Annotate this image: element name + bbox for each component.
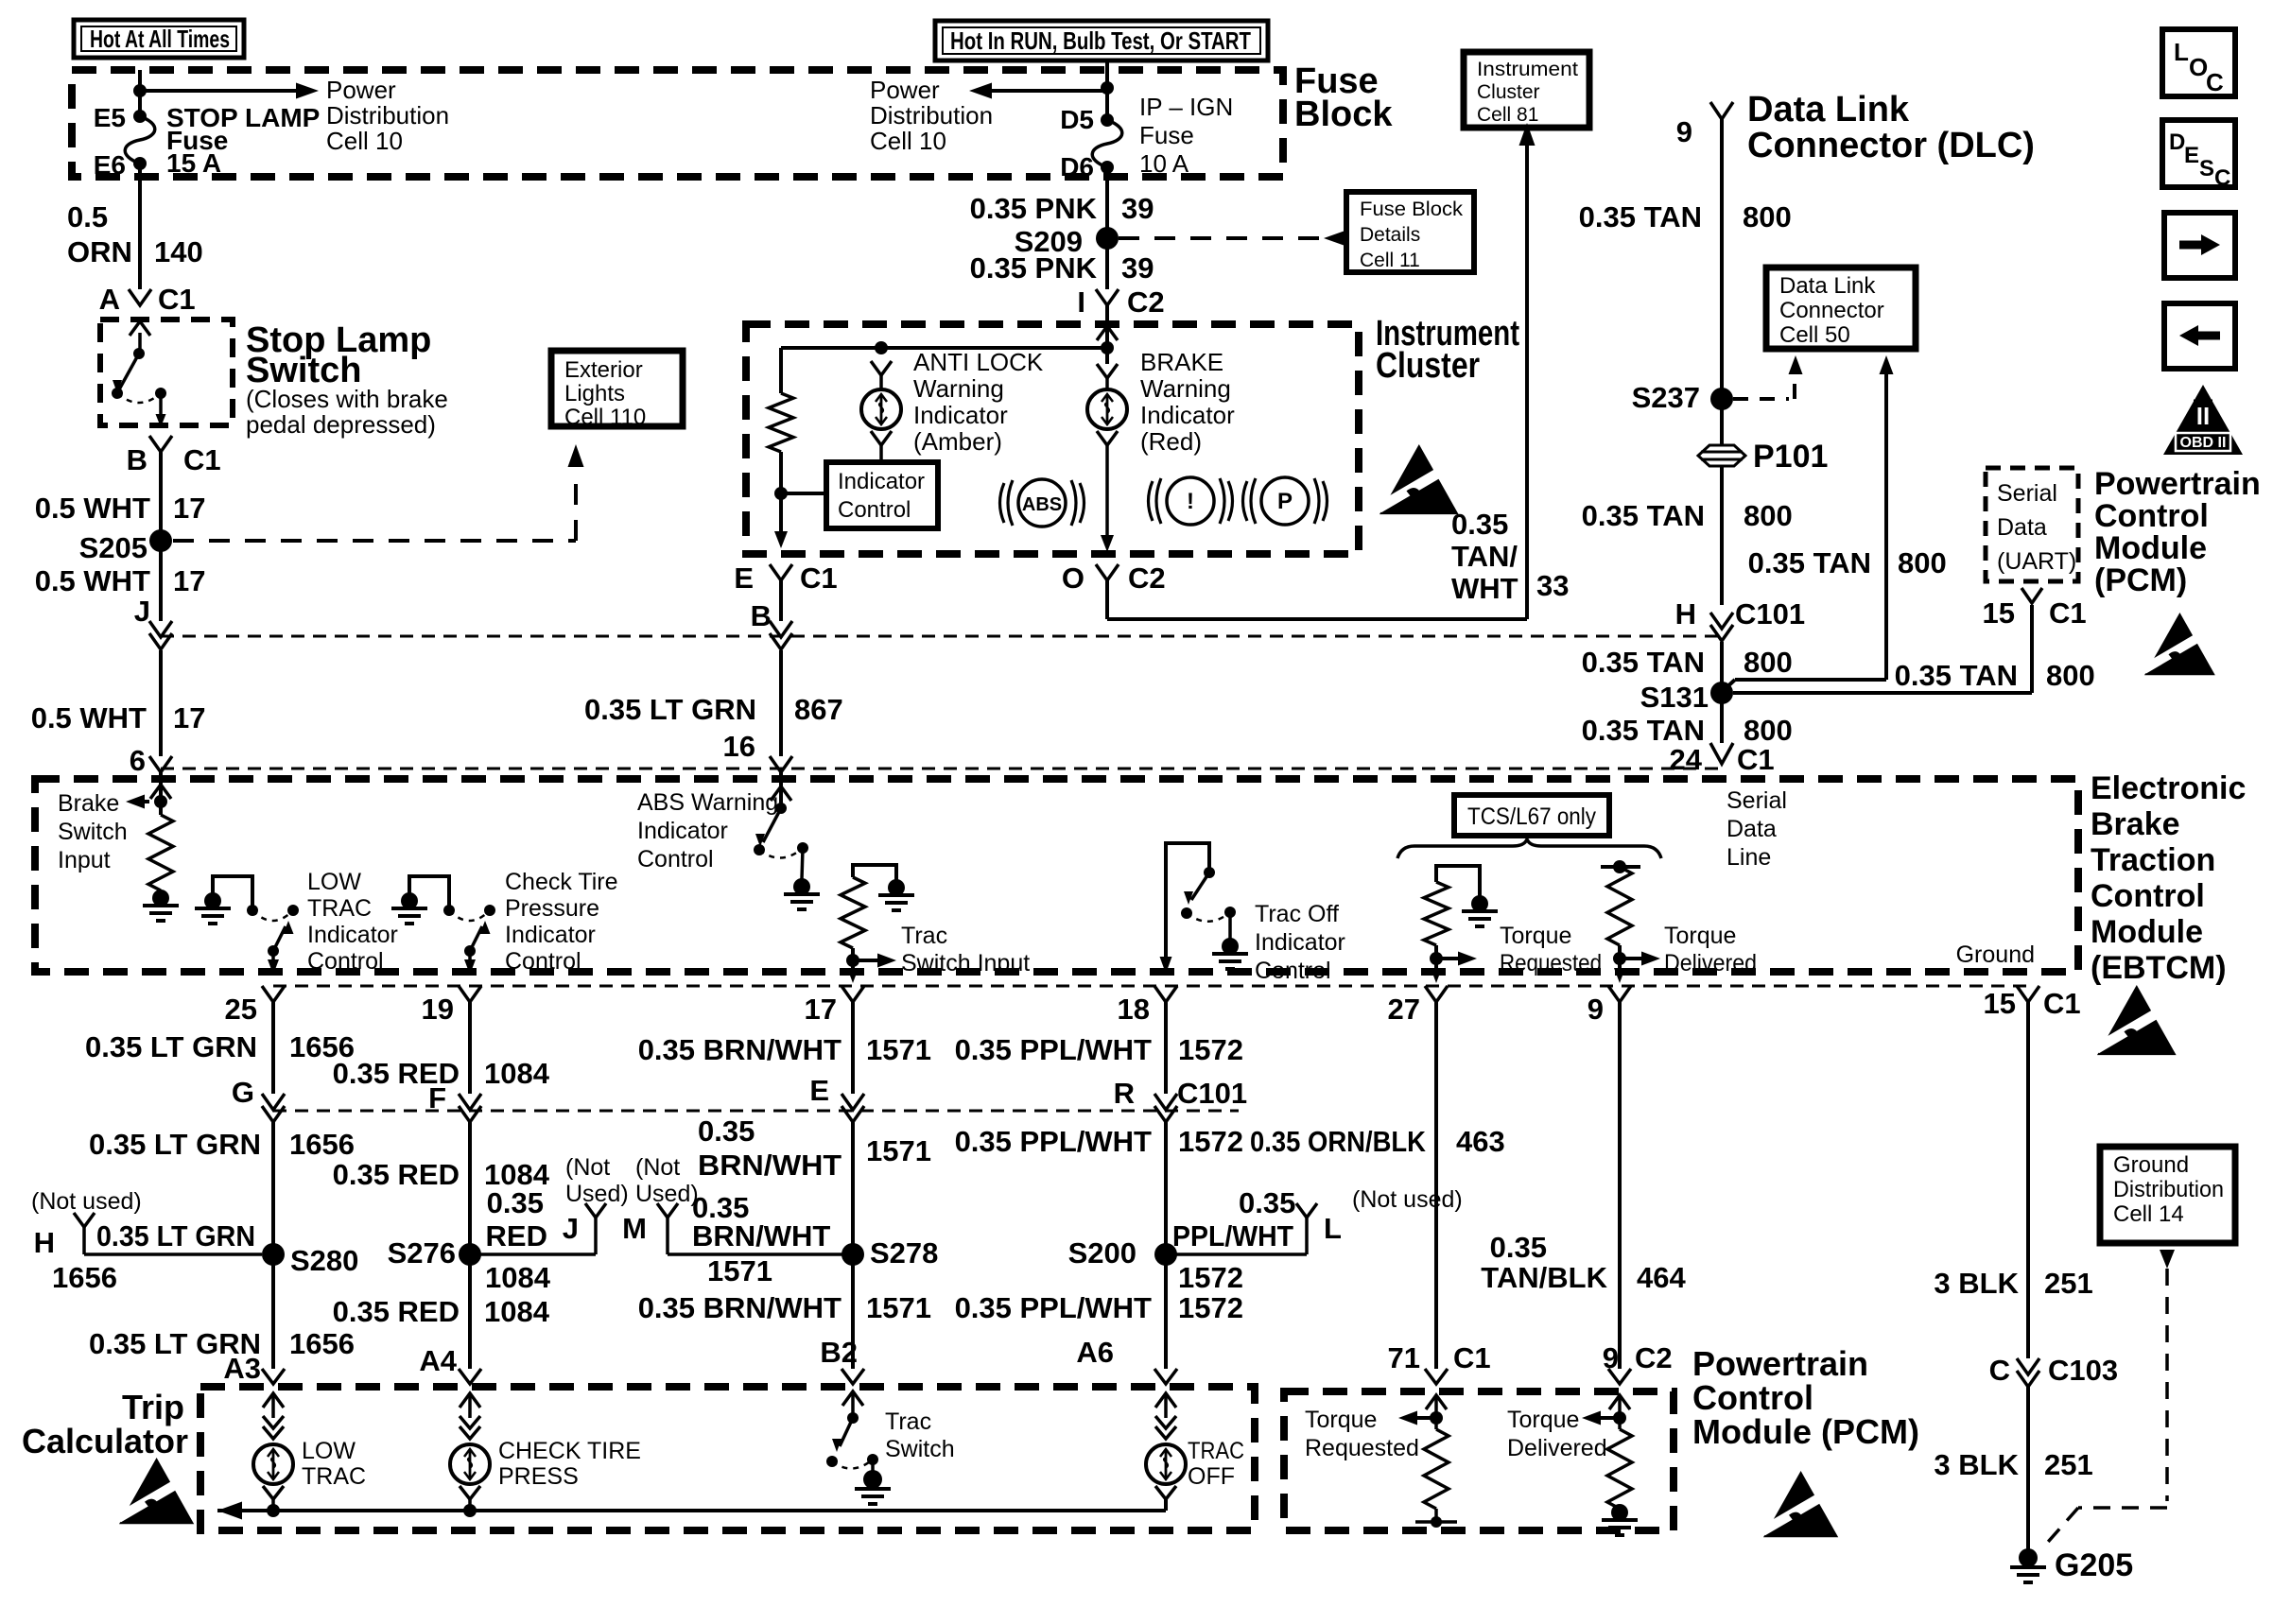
- svg-text:C2: C2: [1128, 561, 1166, 595]
- svg-text:0.35: 0.35: [1451, 508, 1508, 541]
- svg-text:0.35 LT GRN: 0.35 LT GRN: [89, 1128, 261, 1161]
- svg-text:PRESS: PRESS: [498, 1463, 579, 1490]
- svg-text:0.35: 0.35: [1239, 1186, 1295, 1219]
- svg-text:Hot At All Times: Hot At All Times: [90, 25, 230, 53]
- svg-text:OBD II: OBD II: [2180, 435, 2227, 451]
- svg-text:F: F: [428, 1081, 446, 1114]
- svg-text:1572: 1572: [1178, 1033, 1243, 1066]
- svg-text:Control: Control: [1692, 1378, 1813, 1417]
- svg-text:0.5: 0.5: [67, 200, 108, 233]
- svg-text:0.35 PPL/WHT: 0.35 PPL/WHT: [955, 1125, 1152, 1158]
- svg-text:OFF: OFF: [1188, 1463, 1235, 1490]
- svg-text:A6: A6: [1076, 1336, 1114, 1369]
- svg-text:Lights: Lights: [564, 381, 625, 406]
- svg-text:Used): Used): [565, 1181, 629, 1207]
- svg-text:S205: S205: [79, 531, 147, 564]
- svg-text:Serial: Serial: [1997, 480, 2057, 507]
- svg-text:TRAC: TRAC: [302, 1463, 366, 1490]
- svg-text:Torque: Torque: [1305, 1407, 1377, 1433]
- svg-text:TRAC: TRAC: [307, 895, 372, 922]
- svg-text:Switch Input: Switch Input: [901, 950, 1030, 976]
- svg-text:A3: A3: [223, 1352, 261, 1385]
- svg-text:9: 9: [1588, 993, 1604, 1026]
- svg-text:Module: Module: [2094, 530, 2207, 566]
- svg-text:0.35 LT GRN: 0.35 LT GRN: [85, 1030, 257, 1063]
- svg-text:Torque: Torque: [1507, 1407, 1579, 1433]
- svg-text:Control: Control: [505, 948, 581, 975]
- svg-text:B: B: [127, 443, 147, 476]
- svg-text:ABS Warning: ABS Warning: [637, 789, 778, 816]
- svg-text:LOW: LOW: [307, 869, 361, 895]
- svg-text:(Not: (Not: [635, 1154, 680, 1181]
- svg-text:G: G: [232, 1076, 254, 1109]
- svg-text:Control: Control: [2091, 878, 2205, 914]
- svg-text:(Not: (Not: [565, 1154, 610, 1181]
- svg-text:M: M: [622, 1212, 647, 1245]
- svg-text:39: 39: [1121, 251, 1154, 285]
- svg-text:Trac: Trac: [885, 1408, 931, 1435]
- svg-text:Indicator: Indicator: [838, 469, 925, 494]
- svg-text:16: 16: [723, 730, 755, 763]
- svg-text:800: 800: [1898, 546, 1947, 579]
- svg-text:15: 15: [1983, 596, 2015, 630]
- svg-text:6: 6: [130, 744, 146, 777]
- svg-text:800: 800: [1744, 714, 1793, 747]
- svg-text:Power: Power: [326, 76, 396, 104]
- svg-text:17: 17: [805, 993, 837, 1026]
- svg-text:(Red): (Red): [1140, 427, 1202, 456]
- svg-text:0.35 TAN: 0.35 TAN: [1582, 714, 1705, 747]
- svg-text:C101: C101: [1735, 597, 1805, 631]
- svg-text:Trac: Trac: [901, 923, 947, 949]
- svg-text:0.35 PPL/WHT: 0.35 PPL/WHT: [955, 1033, 1152, 1066]
- svg-text:D: D: [2169, 130, 2185, 155]
- svg-text:Hot In RUN, Bulb Test, Or STAR: Hot In RUN, Bulb Test, Or START: [950, 26, 1251, 55]
- svg-text:D6: D6: [1060, 152, 1094, 181]
- svg-text:WHT: WHT: [1451, 572, 1518, 605]
- svg-text:Switch: Switch: [58, 819, 128, 845]
- svg-text:0.5 WHT: 0.5 WHT: [35, 564, 150, 597]
- svg-text:S: S: [2199, 156, 2214, 181]
- svg-text:S276: S276: [388, 1236, 456, 1270]
- svg-text:S280: S280: [290, 1244, 358, 1277]
- svg-text:(Closes with brake: (Closes with brake: [246, 385, 448, 413]
- svg-text:I: I: [1077, 285, 1085, 319]
- svg-text:C1: C1: [2049, 596, 2087, 630]
- svg-text:TCS/L67 only: TCS/L67 only: [1467, 803, 1596, 830]
- svg-text:867: 867: [794, 693, 843, 726]
- svg-text:Fuse: Fuse: [1139, 121, 1194, 149]
- svg-text:Warning: Warning: [1140, 374, 1231, 403]
- svg-text:Switch: Switch: [885, 1436, 955, 1462]
- svg-text:Instrument: Instrument: [1477, 59, 1578, 80]
- svg-text:Exterior: Exterior: [564, 357, 643, 383]
- svg-text:1572: 1572: [1178, 1125, 1243, 1158]
- svg-text:0.35 PPL/WHT: 0.35 PPL/WHT: [955, 1291, 1152, 1324]
- svg-text:Power: Power: [870, 76, 940, 104]
- svg-text:Data Link: Data Link: [1747, 90, 1910, 130]
- svg-text:G205: G205: [2055, 1547, 2133, 1583]
- svg-text:0.35 RED: 0.35 RED: [333, 1295, 460, 1328]
- svg-text:E: E: [2184, 143, 2199, 168]
- svg-text:ABS: ABS: [1022, 494, 1062, 515]
- svg-text:Cell 10: Cell 10: [326, 127, 403, 155]
- svg-text:Module (PCM): Module (PCM): [1692, 1412, 1919, 1451]
- svg-text:Ground: Ground: [1956, 942, 2035, 968]
- svg-text:Requested: Requested: [1305, 1435, 1419, 1461]
- svg-text:9: 9: [1676, 115, 1692, 148]
- svg-text:Indicator: Indicator: [1255, 929, 1345, 956]
- svg-text:1656: 1656: [289, 1128, 355, 1161]
- svg-text:Cluster: Cluster: [1376, 346, 1480, 386]
- svg-text:15: 15: [1984, 987, 2016, 1020]
- svg-text:0.35 RED: 0.35 RED: [333, 1158, 460, 1191]
- svg-text:18: 18: [1118, 993, 1150, 1026]
- svg-text:Module: Module: [2091, 914, 2203, 950]
- svg-text:Indicator: Indicator: [1140, 401, 1235, 429]
- svg-text:19: 19: [422, 993, 454, 1026]
- svg-text:Block: Block: [1294, 95, 1393, 134]
- svg-text:L: L: [2174, 38, 2189, 66]
- svg-text:800: 800: [1744, 646, 1793, 679]
- svg-text:B2: B2: [820, 1336, 858, 1369]
- svg-text:ORN: ORN: [67, 235, 132, 268]
- svg-text:Serial: Serial: [1726, 787, 1787, 814]
- svg-text:Electronic: Electronic: [2091, 770, 2246, 806]
- svg-text:25: 25: [225, 993, 257, 1026]
- svg-text:E: E: [734, 561, 754, 595]
- svg-text:0.35 TAN: 0.35 TAN: [1748, 546, 1871, 579]
- svg-text:Line: Line: [1726, 844, 1771, 871]
- svg-text:IP – IGN: IP – IGN: [1139, 93, 1233, 121]
- svg-text:CHECK TIRE: CHECK TIRE: [498, 1438, 641, 1464]
- svg-text:3 BLK: 3 BLK: [1934, 1267, 2019, 1300]
- svg-text:Brake: Brake: [58, 790, 119, 817]
- svg-text:LOW: LOW: [302, 1438, 356, 1464]
- svg-text:Delivered: Delivered: [1507, 1435, 1607, 1461]
- svg-text:1571: 1571: [866, 1134, 931, 1167]
- svg-text:1572: 1572: [1178, 1261, 1243, 1294]
- svg-text:1656: 1656: [52, 1261, 117, 1294]
- svg-text:0.35: 0.35: [1490, 1231, 1547, 1264]
- svg-text:C: C: [2206, 68, 2224, 96]
- svg-text:RED: RED: [486, 1219, 547, 1253]
- svg-text:Distribution: Distribution: [326, 101, 449, 130]
- svg-text:H: H: [34, 1226, 55, 1259]
- svg-text:Cell 110: Cell 110: [564, 405, 646, 430]
- svg-text:TAN/BLK: TAN/BLK: [1481, 1261, 1607, 1294]
- svg-text:Powertrain: Powertrain: [1692, 1344, 1868, 1383]
- svg-text:Used): Used): [635, 1181, 699, 1207]
- svg-text:BRN/WHT: BRN/WHT: [698, 1149, 842, 1182]
- svg-text:1571: 1571: [707, 1254, 772, 1287]
- svg-text:Distribution: Distribution: [870, 101, 993, 130]
- svg-text:Indicator: Indicator: [913, 401, 1008, 429]
- svg-text:S200: S200: [1068, 1236, 1136, 1270]
- svg-text:C1: C1: [2043, 987, 2081, 1020]
- svg-text:Details: Details: [1360, 224, 1420, 246]
- svg-text:A4: A4: [419, 1344, 457, 1377]
- svg-text:Trip: Trip: [122, 1388, 184, 1426]
- svg-text:C1: C1: [183, 443, 221, 476]
- svg-text:0.35 PNK: 0.35 PNK: [970, 251, 1098, 285]
- svg-text:15 A: 15 A: [166, 148, 221, 178]
- svg-text:Control: Control: [2094, 498, 2209, 534]
- svg-text:Control: Control: [307, 948, 384, 975]
- svg-text:0.35 BRN/WHT: 0.35 BRN/WHT: [638, 1291, 842, 1324]
- svg-text:C1: C1: [1453, 1341, 1491, 1374]
- svg-text:24: 24: [1670, 743, 1703, 776]
- svg-text:(Not used): (Not used): [1352, 1186, 1463, 1213]
- svg-text:Torque: Torque: [1500, 923, 1571, 949]
- svg-text:Torque: Torque: [1664, 923, 1736, 949]
- svg-text:O: O: [1062, 561, 1084, 595]
- svg-text:H: H: [1675, 597, 1696, 631]
- svg-text:(EBTCM): (EBTCM): [2091, 950, 2227, 986]
- svg-text:0.35 TAN: 0.35 TAN: [1579, 200, 1702, 233]
- svg-text:E5: E5: [94, 103, 126, 132]
- svg-text:Control: Control: [1255, 958, 1331, 984]
- svg-text:P: P: [1277, 489, 1293, 514]
- svg-text:Distribution: Distribution: [2113, 1177, 2224, 1202]
- svg-text:Data: Data: [1726, 816, 1777, 842]
- svg-text:S278: S278: [870, 1236, 938, 1270]
- svg-text:Cell 50: Cell 50: [1779, 322, 1850, 348]
- svg-text:Delivered: Delivered: [1664, 950, 1757, 976]
- svg-text:!: !: [1187, 489, 1194, 514]
- svg-text:800: 800: [1743, 200, 1792, 233]
- svg-text:0.35 LT GRN: 0.35 LT GRN: [96, 1219, 255, 1253]
- svg-text:(PCM): (PCM): [2094, 562, 2187, 598]
- svg-text:0.35 TAN: 0.35 TAN: [1895, 659, 2018, 692]
- svg-text:0.35: 0.35: [487, 1186, 544, 1219]
- svg-text:Fuse Block: Fuse Block: [1360, 199, 1464, 220]
- svg-text:Input: Input: [58, 847, 111, 873]
- svg-text:17: 17: [173, 564, 205, 597]
- svg-text:Cell 14: Cell 14: [2113, 1201, 2184, 1227]
- svg-text:(Not used): (Not used): [31, 1188, 142, 1215]
- svg-text:463: 463: [1456, 1125, 1505, 1158]
- svg-text:BRAKE: BRAKE: [1140, 348, 1223, 376]
- svg-text:C101: C101: [1177, 1077, 1247, 1110]
- svg-text:251: 251: [2044, 1448, 2093, 1481]
- svg-text:pedal depressed): pedal depressed): [246, 410, 436, 439]
- svg-text:(Amber): (Amber): [913, 427, 1002, 456]
- svg-text:800: 800: [2046, 659, 2095, 692]
- svg-text:C1: C1: [800, 561, 838, 595]
- svg-text:(UART): (UART): [1997, 548, 2076, 575]
- svg-text:Cell 10: Cell 10: [870, 127, 946, 155]
- svg-text:Data Link: Data Link: [1779, 273, 1876, 299]
- svg-text:P101: P101: [1753, 439, 1828, 475]
- svg-text:0.5 WHT: 0.5 WHT: [35, 492, 150, 525]
- svg-text:0.35: 0.35: [698, 1114, 755, 1148]
- svg-text:ANTI LOCK: ANTI LOCK: [913, 348, 1044, 376]
- svg-text:Connector: Connector: [1779, 298, 1884, 323]
- svg-text:0.35 TAN: 0.35 TAN: [1582, 499, 1705, 532]
- svg-text:Calculator: Calculator: [22, 1422, 188, 1460]
- svg-text:0.35 BRN/WHT: 0.35 BRN/WHT: [638, 1033, 842, 1066]
- svg-text:Indicator: Indicator: [505, 922, 596, 948]
- svg-text:10 A: 10 A: [1139, 149, 1189, 178]
- svg-text:B: B: [751, 599, 772, 632]
- svg-text:J: J: [563, 1212, 579, 1245]
- svg-text:C2: C2: [1127, 285, 1165, 319]
- svg-text:L: L: [1324, 1212, 1342, 1245]
- svg-text:17: 17: [173, 701, 205, 734]
- svg-text:C1: C1: [1737, 743, 1775, 776]
- svg-text:Powertrain: Powertrain: [2094, 466, 2261, 502]
- svg-text:Indicator: Indicator: [637, 818, 728, 844]
- svg-text:0.35 LT GRN: 0.35 LT GRN: [584, 693, 756, 726]
- svg-text:0.35 PNK: 0.35 PNK: [970, 192, 1098, 225]
- svg-text:E6: E6: [94, 150, 126, 180]
- svg-text:C: C: [2214, 165, 2230, 191]
- svg-text:Pressure: Pressure: [505, 895, 599, 922]
- svg-text:Indicator: Indicator: [307, 922, 398, 948]
- svg-text:0.5 WHT: 0.5 WHT: [31, 701, 147, 734]
- svg-text:464: 464: [1637, 1261, 1686, 1294]
- svg-text:17: 17: [173, 492, 205, 525]
- svg-text:1656: 1656: [289, 1327, 355, 1360]
- svg-text:BRN/WHT: BRN/WHT: [692, 1219, 830, 1253]
- svg-text:C: C: [1989, 1354, 2010, 1387]
- svg-text:1084: 1084: [484, 1295, 550, 1328]
- svg-text:S237: S237: [1632, 381, 1700, 414]
- svg-text:Warning: Warning: [913, 374, 1004, 403]
- svg-text:TAN/: TAN/: [1451, 540, 1518, 573]
- svg-text:C103: C103: [2048, 1354, 2118, 1387]
- svg-text:Control: Control: [637, 846, 714, 872]
- svg-text:Cell 81: Cell 81: [1477, 104, 1538, 126]
- svg-text:A: A: [99, 283, 120, 316]
- svg-text:TRAC: TRAC: [1188, 1438, 1244, 1464]
- svg-text:Connector (DLC): Connector (DLC): [1747, 126, 2035, 165]
- svg-text:Cluster: Cluster: [1477, 81, 1540, 103]
- svg-text:Ground: Ground: [2113, 1152, 2189, 1178]
- svg-text:PPL/WHT: PPL/WHT: [1172, 1219, 1293, 1253]
- svg-text:0.35 TAN: 0.35 TAN: [1582, 646, 1705, 679]
- svg-text:D5: D5: [1060, 105, 1094, 134]
- svg-text:1571: 1571: [866, 1033, 931, 1066]
- svg-text:Control: Control: [838, 497, 911, 523]
- svg-text:Trac Off: Trac Off: [1255, 901, 1339, 927]
- svg-text:S131: S131: [1640, 681, 1709, 714]
- svg-text:33: 33: [1536, 569, 1569, 602]
- svg-text:71: 71: [1388, 1341, 1420, 1374]
- svg-text:Data: Data: [1997, 514, 2047, 541]
- svg-text:3 BLK: 3 BLK: [1934, 1448, 2019, 1481]
- svg-text:Brake: Brake: [2091, 806, 2180, 842]
- svg-text:27: 27: [1388, 993, 1420, 1026]
- svg-text:0.35 ORN/BLK: 0.35 ORN/BLK: [1250, 1125, 1427, 1158]
- svg-text:140: 140: [154, 235, 203, 268]
- svg-text:R: R: [1114, 1077, 1135, 1110]
- svg-text:C2: C2: [1635, 1341, 1673, 1374]
- svg-text:Requested: Requested: [1500, 950, 1602, 976]
- svg-text:1084: 1084: [484, 1057, 550, 1090]
- svg-text:J: J: [134, 595, 150, 628]
- svg-text:Cell 11: Cell 11: [1360, 250, 1420, 271]
- svg-text:1572: 1572: [1178, 1291, 1243, 1324]
- svg-text:800: 800: [1744, 499, 1793, 532]
- svg-text:Check Tire: Check Tire: [505, 869, 617, 895]
- svg-text:E: E: [809, 1074, 829, 1107]
- svg-text:1571: 1571: [866, 1291, 931, 1324]
- svg-text:251: 251: [2044, 1267, 2093, 1300]
- svg-text:Traction: Traction: [2091, 842, 2215, 878]
- svg-text:C1: C1: [158, 283, 196, 316]
- svg-text:1084: 1084: [485, 1261, 551, 1294]
- svg-text:39: 39: [1121, 192, 1154, 225]
